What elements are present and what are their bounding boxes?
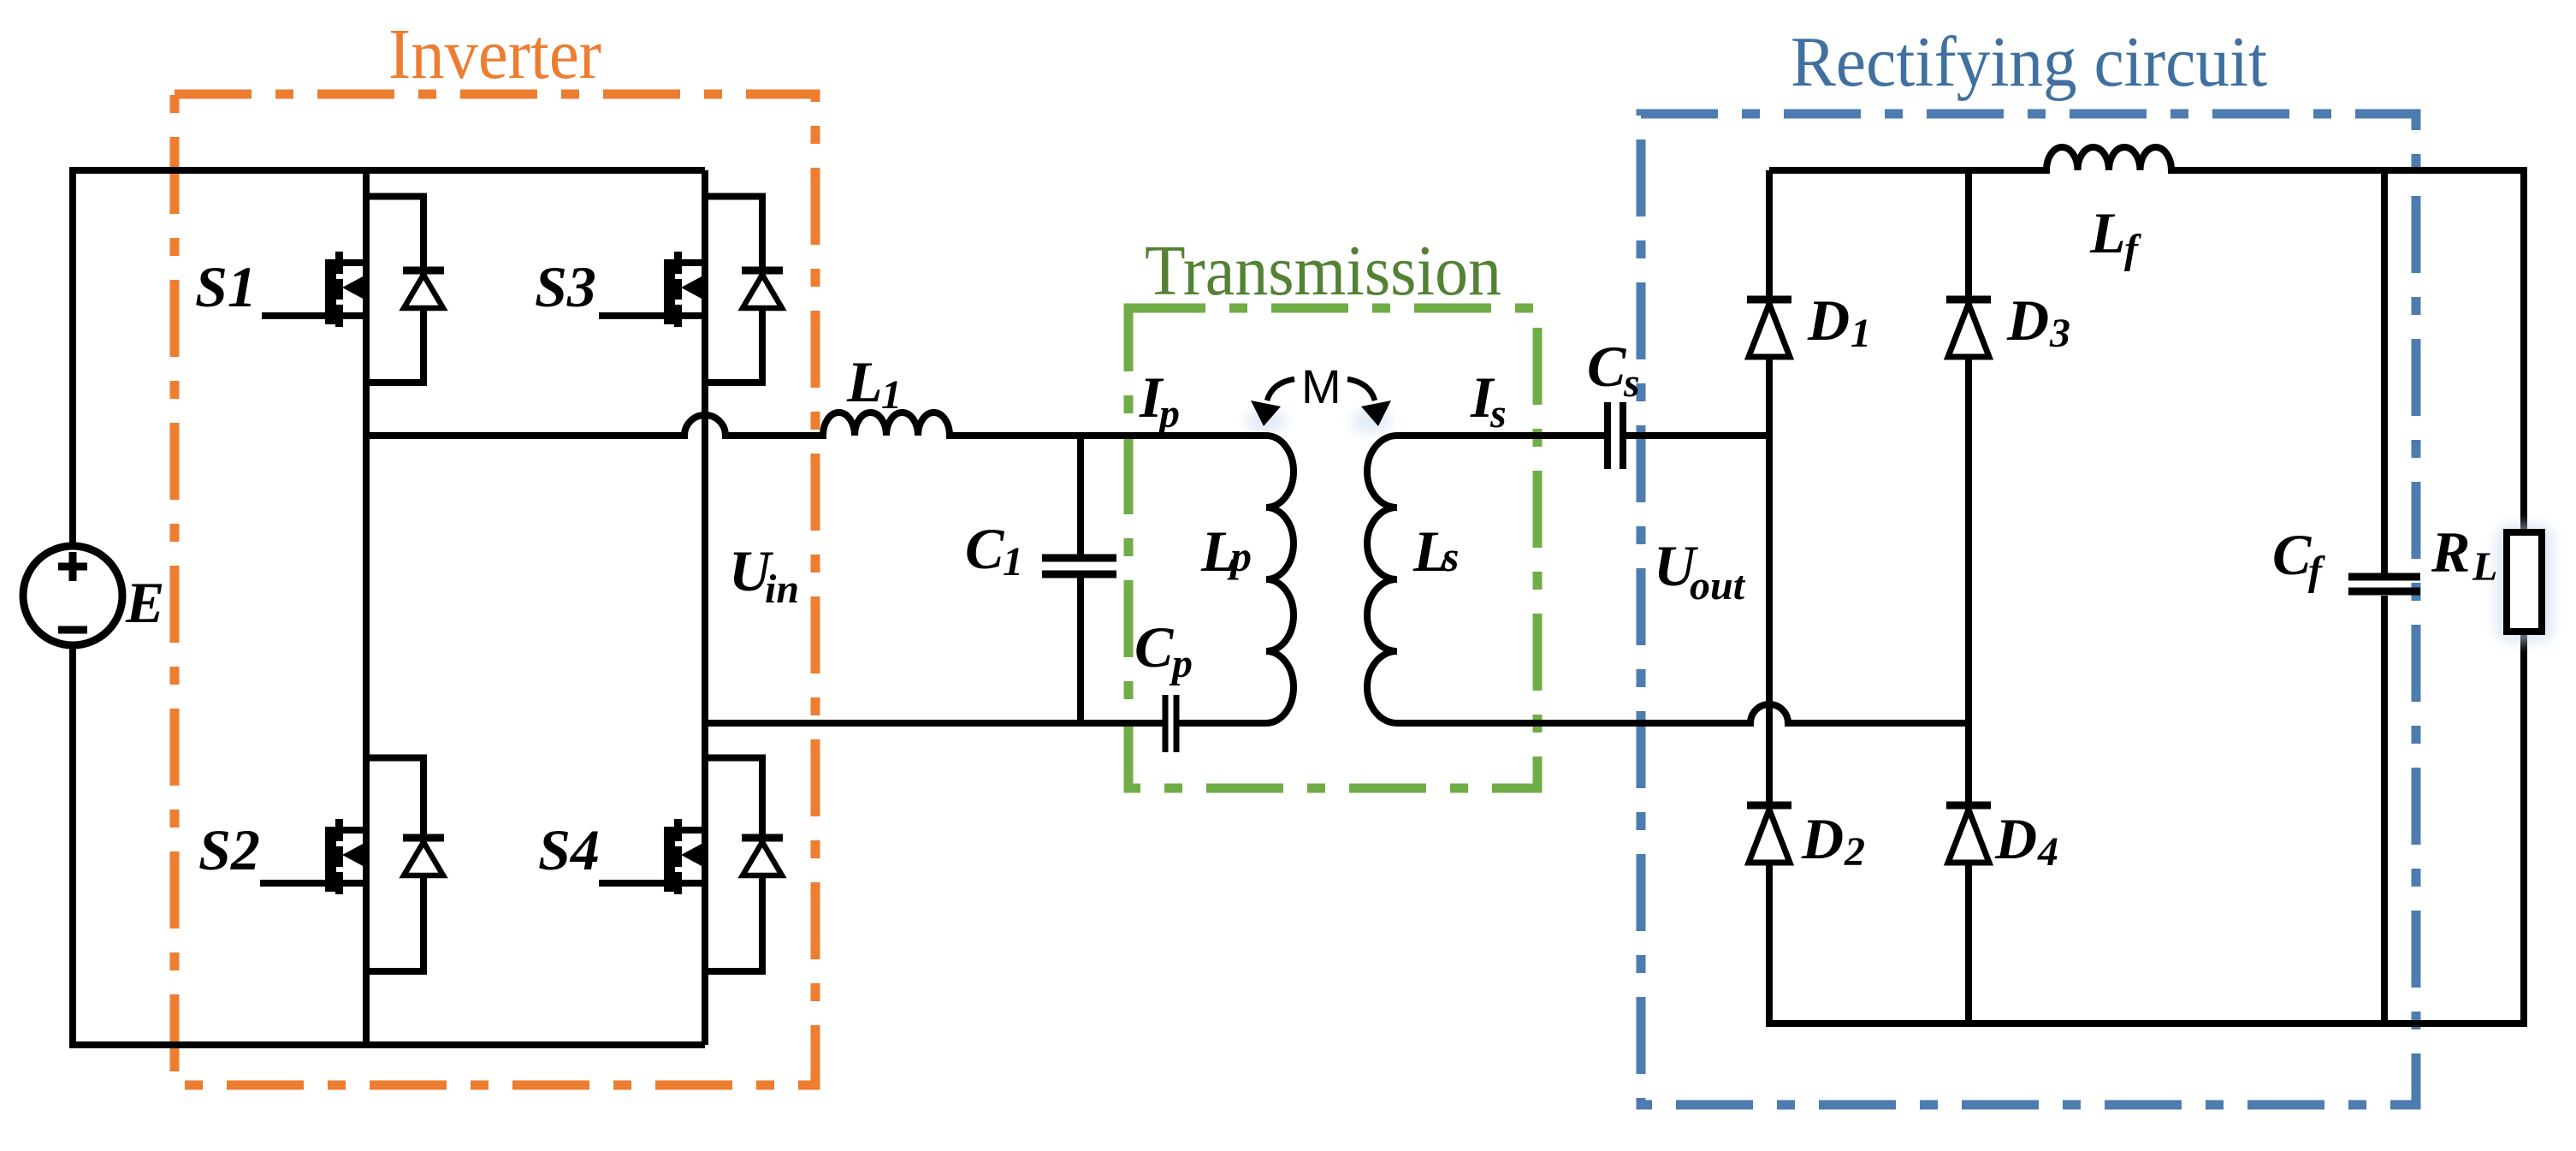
svg-text:R: R [2431,519,2470,584]
svg-text:p: p [1169,641,1193,686]
svg-text:S3: S3 [535,254,596,319]
svg-text:s: s [1623,360,1640,406]
svg-text:C: C [965,516,1004,581]
svg-text:in: in [765,567,799,612]
svg-text:L: L [2472,544,2497,590]
svg-text:L: L [2089,200,2126,265]
svg-text:Rectifying circuit: Rectifying circuit [1791,22,2267,102]
svg-text:2: 2 [1844,829,1865,875]
svg-text:D: D [1807,288,1850,353]
svg-text:D: D [2006,288,2049,353]
svg-text:D: D [1801,806,1844,871]
svg-text:s: s [1489,391,1507,436]
svg-text:1: 1 [1851,311,1871,356]
svg-text:p: p [1156,391,1180,436]
svg-text:3: 3 [2049,311,2070,356]
svg-text:D: D [1994,806,2037,871]
svg-text:S2: S2 [198,817,260,882]
svg-text:p: p [1227,532,1252,580]
svg-text:C: C [1134,614,1174,679]
svg-text:Transmission: Transmission [1145,231,1501,311]
svg-text:s: s [1442,532,1459,580]
svg-text:out: out [1690,563,1746,608]
svg-text:C: C [1587,334,1626,399]
svg-text:S4: S4 [538,817,600,882]
svg-text:1: 1 [1003,539,1023,584]
svg-text:E: E [125,570,164,635]
svg-text:M: M [1301,359,1341,413]
svg-text:L: L [846,349,883,414]
svg-text:C: C [2272,522,2312,587]
svg-text:Inverter: Inverter [388,15,601,94]
svg-text:1: 1 [881,372,902,418]
svg-text:4: 4 [2037,829,2058,875]
svg-text:S1: S1 [195,254,257,319]
